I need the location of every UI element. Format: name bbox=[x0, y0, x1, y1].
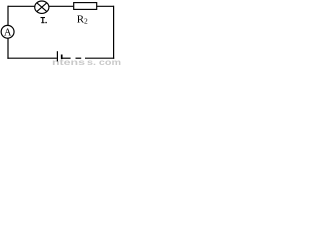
wire resistor-to-corner bbox=[97, 5, 114, 7]
wire bottom dash bbox=[76, 57, 82, 59]
battery short plate bbox=[61, 55, 63, 60]
wire left vertical lower bbox=[7, 38, 9, 58]
lamp L circle bbox=[35, 1, 49, 13]
lamp L cross stroke 2 bbox=[37, 3, 47, 12]
lamp label glyph (serif I with dot) bbox=[41, 17, 47, 23]
svg-text:2: 2 bbox=[84, 16, 88, 25]
battery long plate bbox=[56, 51, 58, 61]
wire lamp-to-resistor bbox=[49, 5, 74, 7]
ammeter A1 circle bbox=[1, 25, 14, 38]
resistor R2 box bbox=[74, 3, 97, 10]
svg-text:A: A bbox=[4, 27, 12, 38]
wire top-left horizontal bbox=[8, 5, 35, 7]
wire right vertical bbox=[113, 6, 115, 59]
lamp L cross stroke 1 bbox=[37, 3, 47, 12]
wire battery-to-dash bbox=[62, 57, 70, 59]
svg-text:s. com: s. com bbox=[87, 58, 121, 67]
wire bottom right solid bbox=[85, 57, 114, 59]
wire bottom left bbox=[7, 57, 57, 59]
wire left vertical upper bbox=[7, 6, 9, 26]
